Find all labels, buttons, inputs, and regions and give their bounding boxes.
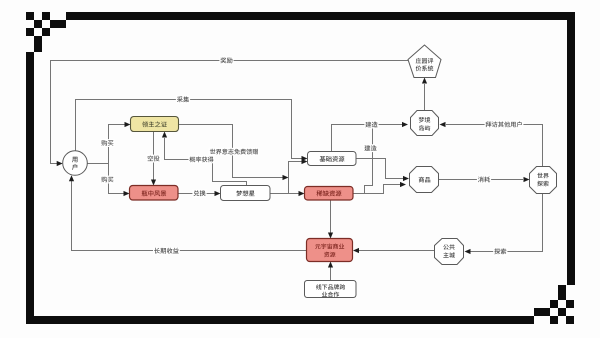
wire 世界意志免费馈赠: 领主之证 → 资源 junction (179, 125, 283, 178)
arrowhead into 世界探索 left (524, 177, 530, 182)
wire 概率获得: 梦想星 → 领主之证 (165, 138, 247, 186)
node 庄园评价系统 (pentagon) (408, 45, 441, 78)
node 元宇宙商业资源 (pink box) (307, 239, 353, 262)
arrowhead into 庄园评价系统 bottom (422, 78, 427, 84)
wire 基础资源 → 商品 (356, 159, 403, 179)
wire 采集: 用户 → 基础资源 (76, 100, 303, 159)
node 商品 (octagon) (410, 167, 439, 193)
label 购买 (upper) (100, 139, 114, 147)
node 梦想星 (box) (221, 186, 271, 201)
node 用户 (circle) (63, 151, 88, 176)
arrowhead into 领主之证 bottom (162, 132, 167, 138)
node 线下品牌跨业合作 (box) (305, 281, 357, 298)
arrowhead into 基础资源 left (lower) (302, 159, 308, 164)
wire 稀缺资源 → 元宇宙商业资源 (330, 200, 332, 233)
wire 梦想星 → 稀缺资源 (270, 193, 299, 195)
arrowhead into 元宇宙商业资源 bottom (328, 262, 333, 268)
arrowhead into 梦境岛屿 left (402, 122, 408, 127)
arrowhead into 用户 bottom (69, 175, 74, 181)
label 兑换 (192, 189, 206, 197)
node 世界探索 (octagon) (530, 167, 557, 194)
node 瓶中风景 (pink box) (130, 186, 179, 201)
label 空投 (146, 155, 160, 163)
wire 购买 upper: 用户 → 领主之证 (87, 125, 125, 164)
wire 空投: 领主之证 → 瓶中风景 (153, 132, 155, 181)
wire 购买 lower: 用户 → 瓶中风景 (109, 164, 125, 194)
label 消耗 (477, 176, 491, 184)
arrowhead into 稀缺资源 left (299, 191, 305, 196)
arrowhead into 用户 left (57, 161, 63, 166)
label 世界意志免费馈赠 (209, 148, 259, 156)
wire 线下品牌跨业合作 → 元宇宙商业资源 (330, 268, 332, 281)
arrowhead into 商品 left (lower) (400, 182, 406, 187)
wire 建造: 基础资源 → 梦境岛屿 (332, 125, 403, 152)
arrowhead into 公共主城 right (465, 249, 471, 254)
arrowhead into 领主之证 left (125, 122, 131, 127)
wire 探索: 世界探索 → 公共主城 (471, 194, 543, 252)
node 公共主城 (octagon) (435, 239, 464, 265)
arrowhead into 瓶中风景 top (151, 180, 156, 186)
arrowhead into 元宇宙商业资源 right (353, 248, 359, 253)
arrowhead into 瓶中风景 left (124, 191, 130, 196)
wire 拜访其他用户: 世界探索 → 梦境岛屿 (446, 125, 543, 167)
wire 公共主城 → 元宇宙商业资源 (359, 250, 435, 252)
label 购买 (lower) (100, 176, 114, 184)
node 稀缺资源 (pink box) (305, 187, 354, 201)
wire 长期收益: 元宇宙商业资源 → 用户 (72, 181, 307, 251)
arrowhead into 基础资源 left (upper) (302, 156, 308, 161)
label 建造 (稀缺资源→梦境岛屿) (363, 144, 377, 152)
wire junction bus vertical (289, 162, 303, 194)
wire 消耗: 商品 → 世界探索 (439, 179, 524, 181)
label 探索 (493, 248, 507, 256)
wire 稀缺资源 → 商品 (353, 185, 400, 194)
arrowhead into 梦想星 left (215, 191, 221, 196)
node 梦境岛屿 (octagon) (411, 111, 439, 136)
node 基础资源 (box) (308, 152, 357, 166)
wire 奖励: 庄园评价系统 → 用户 (51, 61, 409, 164)
label 长期收益 (153, 247, 180, 255)
label 奖励 (219, 56, 233, 64)
arrowhead into 梦境岛屿 right (440, 122, 446, 127)
label 概率获得 (189, 156, 215, 164)
label 建造 (基础资源→梦境岛屿) (364, 121, 378, 129)
wire 梦境岛屿 → 庄园评价系统 (424, 84, 426, 111)
wire 兑换: 瓶中风景 → 梦想星 (178, 193, 215, 195)
arrowhead into junction bus (283, 175, 289, 180)
node 领主之证 (yellow box) (131, 117, 179, 132)
arrowhead into 元宇宙商业资源 top (328, 233, 333, 239)
label 采集 (176, 96, 190, 104)
label 拜访其他用户 (485, 121, 524, 129)
arrowhead into 商品 left (upper) (403, 176, 409, 181)
wire 建造: 稀缺资源 → 梦境岛屿 (353, 125, 373, 194)
